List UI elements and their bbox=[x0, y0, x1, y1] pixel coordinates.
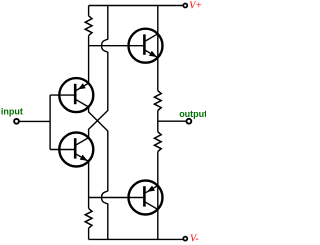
terminal input bbox=[14, 119, 19, 124]
wire R1 bottom lead to node A bbox=[88, 36, 90, 46]
wire input base rail bbox=[49, 95, 51, 149]
wire input bbox=[19, 120, 50, 122]
wire Q3 emitter down to node B and R2 bbox=[88, 161, 90, 208]
wire R3 to R4 through output node bbox=[157, 111, 159, 132]
svg-text:output: output bbox=[179, 109, 206, 119]
wire Q1 base bbox=[50, 94, 74, 96]
wire Q2 collector-emitter vertical bbox=[157, 6, 159, 91]
svg-text:V-: V- bbox=[190, 233, 199, 244]
svg-text:input: input bbox=[1, 107, 23, 117]
wire Q1 collector crossover, hop over Q4 base wire, down to V- rail bbox=[89, 107, 108, 239]
wire Q3 base bbox=[50, 149, 74, 151]
terminal output bbox=[187, 119, 192, 124]
wire node B to Q4 base bbox=[89, 197, 144, 199]
transistor Q2 (NPN upper-right) bbox=[129, 29, 163, 63]
wire node A to Q2 base bbox=[89, 45, 144, 47]
terminal V- bbox=[183, 237, 187, 241]
svg-text:V+: V+ bbox=[189, 0, 202, 11]
wire V+ rail drop with hop over Q2 base wire, crossover to Q3 collector bbox=[89, 6, 108, 138]
wire R2 bottom lead bbox=[88, 228, 90, 239]
transistor Q1 (PNP upper-left) bbox=[59, 78, 93, 112]
resistor R1 bbox=[85, 16, 92, 36]
resistor R2 bbox=[85, 208, 92, 228]
terminal V+ bbox=[183, 4, 187, 8]
resistor R4 bbox=[154, 132, 161, 152]
wire R4 to V- rail through Q4 bbox=[157, 152, 159, 240]
wire R1 top lead bbox=[88, 6, 90, 16]
wire top V+ rail bbox=[89, 5, 183, 7]
wire node A down to Q1 emitter bbox=[88, 46, 90, 83]
wire output bbox=[158, 120, 186, 122]
wire bottom V- rail bbox=[89, 238, 183, 240]
resistor R3 bbox=[154, 91, 161, 111]
transistor Q4 (PNP lower-right) bbox=[129, 181, 163, 215]
transistor Q3 (NPN lower-left) bbox=[59, 133, 93, 167]
